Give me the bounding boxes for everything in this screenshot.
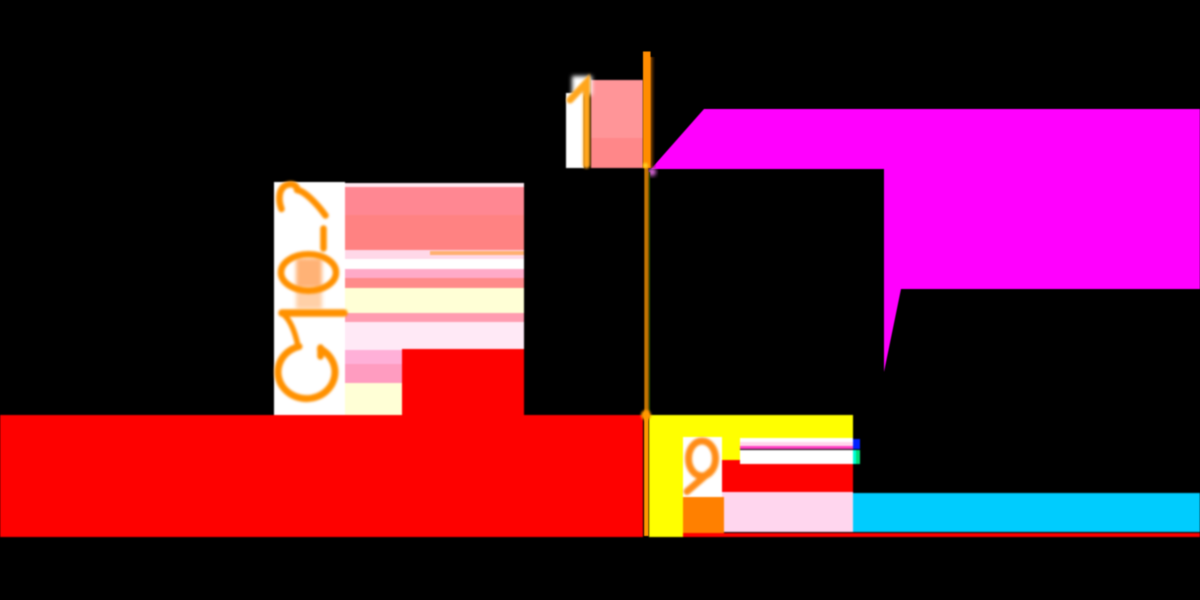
junction dot on yellow — [641, 410, 651, 420]
blue square — [853, 439, 860, 449]
glyph 1 flag — [283, 314, 298, 346]
wire: thin vertical line (pin 2 side) — [644, 168, 648, 536]
wire stripe band 6 — [345, 278, 524, 288]
glyph 2 loop — [279, 184, 297, 209]
orange block under pin number 2 — [683, 497, 724, 533]
wire stripe band 5 — [345, 269, 524, 278]
yellow net small — [722, 438, 740, 460]
reference label C102 (rotated, reads bottom to top) — [278, 184, 344, 398]
pin tip sparkle — [643, 163, 648, 168]
label interior tints — [296, 258, 322, 309]
white halo left of pin number 1 — [566, 93, 584, 168]
wire stripe band 2 — [345, 215, 524, 250]
magenta blur blob at pin junction — [648, 168, 656, 176]
wire stripe band 10 — [345, 350, 402, 364]
wire stripe band 7 — [345, 288, 524, 313]
stripes right of pin 2: white — [740, 438, 853, 442]
wire stripe band 8 — [345, 313, 524, 322]
node highlight block: white field behind C102 label — [274, 182, 345, 415]
yellow net band tall — [649, 438, 683, 537]
wire stripe band 0 — [345, 183, 524, 187]
wire: brighter segment over red/yellow — [644, 415, 648, 536]
pin 1 thick stub — [643, 52, 651, 169]
glyph C — [317, 348, 324, 357]
red wire band right of 2 (left part) — [722, 460, 740, 492]
stripes: magenta line — [740, 446, 853, 449]
glyph 1 stem — [282, 309, 344, 317]
red wire band right of 2 — [740, 464, 853, 492]
node highlight: salmon rect upper (right of pin 1 number) — [591, 80, 643, 138]
stripes: pale pink — [740, 442, 853, 446]
wire stripe band 4 — [345, 259, 524, 269]
net highlight: red main band — [0, 415, 643, 537]
pin number 2 — [687, 441, 716, 492]
cyan net strip — [853, 493, 1200, 532]
stripes: white band — [740, 450, 853, 464]
glyph 2 base bar — [320, 229, 327, 249]
green square — [853, 450, 856, 464]
wire stripe band 3b orange line — [430, 251, 524, 255]
pin stub right shadow fade — [651, 57, 657, 168]
pink band under red wire band — [722, 492, 853, 532]
yellow net band top — [649, 415, 853, 438]
wire stripe band 12 — [345, 383, 402, 415]
wire: dark green edge line — [649, 172, 651, 412]
magenta highlighted net polygon — [651, 109, 1200, 372]
wire stripe band 9 — [345, 322, 524, 350]
wire stripe band 3 — [345, 250, 524, 259]
pin number 1 — [570, 83, 587, 166]
red wire thin line bottom — [683, 533, 1200, 537]
white halo behind pin number 2 — [683, 437, 722, 497]
node highlight: salmon rect lower — [591, 138, 643, 168]
wire stripe band 1 — [345, 187, 524, 215]
net highlight: red sub-block — [402, 349, 524, 415]
wire stripe band 11 — [345, 364, 402, 383]
glyph 2 diagonal — [297, 190, 326, 216]
glyph 0 — [281, 254, 336, 290]
